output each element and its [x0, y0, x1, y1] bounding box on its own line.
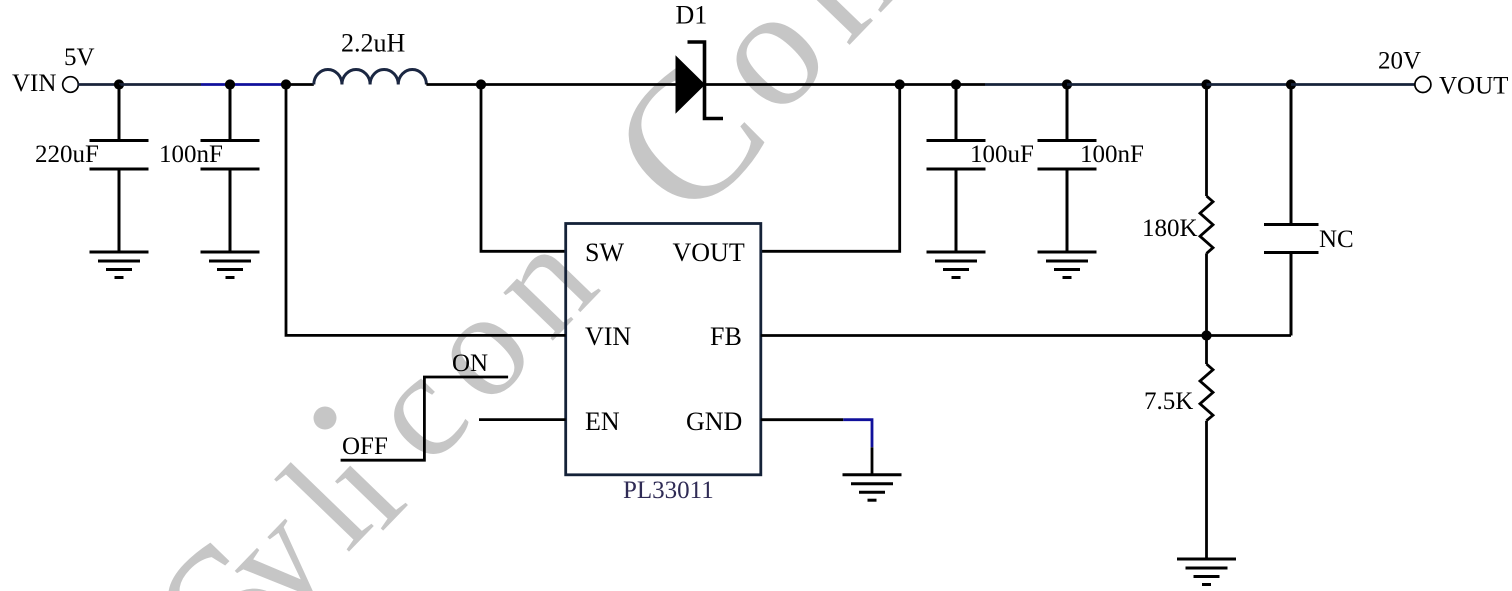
- wire D1 cathode to node E: [705, 83, 900, 86]
- svg-text:NC: NC: [1319, 226, 1354, 253]
- wire node C to L1: [286, 83, 314, 86]
- wire node I to VOUT terminal: [1291, 83, 1415, 86]
- svg-text:180K: 180K: [1142, 215, 1198, 242]
- wire node C down to VIN pin: [286, 85, 566, 336]
- junction node E (VOUT pin node): [895, 79, 905, 89]
- capacitor C2 100nF input: [201, 85, 260, 253]
- resistor R1 180K: [1200, 196, 1213, 253]
- inductor L1: [314, 69, 427, 84]
- resistor R2 7.5K: [1200, 364, 1213, 421]
- ground for GND pin: [843, 475, 902, 501]
- junction node A (C1 top): [114, 79, 124, 89]
- wire node D down to SW pin: [481, 85, 566, 252]
- capacitor C3 100uF: [927, 85, 986, 253]
- junction node H (R1 top): [1201, 79, 1211, 89]
- svg-text:GND: GND: [686, 407, 742, 436]
- svg-text:ylıcon: ylıcon: [187, 185, 645, 591]
- wire FB pin to node J: [761, 334, 1207, 337]
- wire node F to node G: [956, 83, 985, 86]
- junction node B (C2 top): [225, 79, 235, 89]
- svg-text:220uF: 220uF: [35, 141, 99, 168]
- capacitor C1 220uF: [90, 85, 149, 253]
- capacitor C5 NC: [1264, 85, 1319, 336]
- svg-text:ON: ON: [452, 350, 488, 377]
- wire L1 to node D: [426, 83, 481, 86]
- svg-text:EN: EN: [585, 407, 620, 436]
- wire node G to node H: [1067, 83, 1207, 86]
- svg-text:100nF: 100nF: [159, 141, 223, 168]
- svg-text:VIN: VIN: [12, 70, 56, 97]
- svg-text:VOUT: VOUT: [673, 238, 745, 267]
- svg-text:VOUT: VOUT: [1439, 73, 1508, 100]
- ground for R2: [1177, 559, 1236, 585]
- wire EN pin stub: [479, 418, 566, 421]
- IC U1 PL33011 body: [566, 224, 761, 475]
- diode D1: [676, 42, 723, 119]
- junction node F (C3 top): [951, 79, 961, 89]
- junction node C (L1 input / VIN pin node): [281, 79, 291, 89]
- ground for C3: [927, 252, 986, 278]
- wire node E down to VOUT pin: [761, 85, 900, 252]
- ground for C2: [201, 252, 260, 278]
- svg-text:2.2uH: 2.2uH: [341, 29, 406, 58]
- svg-text:VIN: VIN: [585, 322, 631, 351]
- ground for C4: [1038, 252, 1097, 278]
- wire R2 bottom to ground: [1205, 421, 1208, 559]
- wire node A to node B: [119, 83, 201, 86]
- junction node D (SW node): [476, 79, 486, 89]
- wire node H down to R1: [1205, 85, 1208, 197]
- terminal VIN: [63, 77, 79, 93]
- terminal VOUT: [1415, 77, 1431, 93]
- wire node J down to R2: [1205, 336, 1208, 365]
- junction node G (C4 top): [1062, 79, 1072, 89]
- svg-text:OFF: OFF: [342, 433, 388, 460]
- svg-text:5V: 5V: [64, 44, 95, 71]
- svg-text:100uF: 100uF: [970, 141, 1034, 168]
- wire GND pin blue segment: [843, 420, 872, 448]
- wire node B blue segment: [201, 83, 286, 86]
- junction node I (NC cap top): [1286, 79, 1296, 89]
- wire node H to node I: [1207, 83, 1292, 86]
- wire GND pin black segment: [761, 418, 844, 421]
- EN drive step waveform: [341, 377, 509, 460]
- svg-text:PL33011: PL33011: [623, 477, 714, 504]
- capacitor C4 100nF output: [1038, 85, 1097, 253]
- svg-text:FB: FB: [710, 322, 742, 351]
- watermark: [114, 0, 945, 591]
- wire R1 bottom to node J: [1205, 253, 1208, 335]
- svg-text:20V: 20V: [1378, 48, 1421, 75]
- svg-text:7.5K: 7.5K: [1144, 388, 1193, 415]
- junction node J (FB divider tap): [1201, 330, 1211, 340]
- svg-text:D1: D1: [676, 1, 708, 30]
- wire node D to D1 anode: [481, 83, 676, 86]
- svg-text:SW: SW: [585, 238, 624, 267]
- wire node E to node F: [900, 83, 956, 86]
- svg-text:100nF: 100nF: [1080, 141, 1144, 168]
- wire VIN terminal to node A: [78, 83, 119, 86]
- wire node J to NC bottom: [1207, 334, 1292, 337]
- wire GND pin to ground: [871, 447, 874, 474]
- ground for C1: [90, 252, 149, 278]
